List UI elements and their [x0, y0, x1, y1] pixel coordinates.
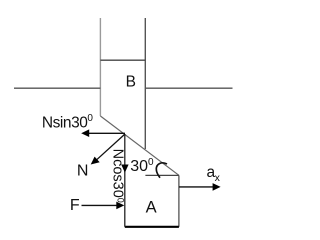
svg-text:Ncos300: Ncos300: [110, 149, 126, 203]
svg-text:Nsin30: Nsin30: [42, 114, 88, 131]
svg-text:x: x: [215, 172, 221, 184]
svg-text:B: B: [126, 74, 136, 91]
svg-text:30: 30: [130, 158, 148, 175]
svg-text:A: A: [146, 198, 157, 216]
svg-text:0: 0: [87, 113, 93, 124]
svg-text:N: N: [77, 162, 89, 179]
svg-text:0: 0: [148, 157, 154, 168]
svg-text:F: F: [70, 197, 80, 214]
